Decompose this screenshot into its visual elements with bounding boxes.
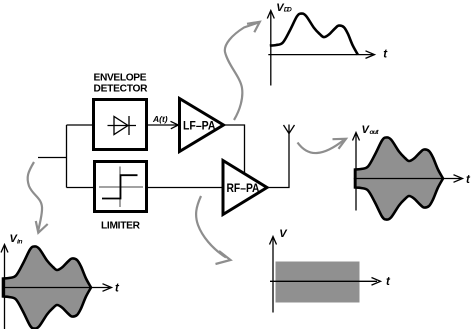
graph Vout axes [353, 133, 463, 211]
svg-text:DD: DD [284, 7, 292, 14]
wire limiter to RF-PA [147, 187, 224, 189]
svg-text:DETECTOR: DETECTOR [94, 84, 149, 95]
limiter symbol [99, 167, 143, 208]
wire A(t) with arrowhead [147, 121, 179, 129]
graph VDD curve [270, 14, 358, 55]
envelope detector box [94, 100, 147, 150]
label ENVELOPE DETECTOR [94, 73, 149, 95]
gray arrow LF-PA to VDD graph [225, 22, 260, 120]
gray arrow antenna to Vout graph [298, 139, 347, 153]
graph Vin axes [1, 245, 112, 329]
wire input stub [38, 157, 67, 159]
op-amp RF-PA [223, 161, 267, 215]
wire to envelope detector [67, 124, 94, 126]
waveform blob Vout [355, 137, 443, 219]
wire to limiter [67, 187, 95, 189]
svg-text:in: in [17, 239, 23, 246]
waveform blob Vin [3, 246, 91, 328]
op-amp LF-PA [180, 99, 224, 152]
graph V axes [270, 237, 277, 313]
gray arrow input to Vin graph [28, 162, 48, 233]
svg-text:LIMITER: LIMITER [101, 221, 141, 232]
wire LF-PA output to RF-PA supply [224, 125, 245, 173]
svg-text:out: out [370, 129, 380, 136]
graph VDD axes [267, 11, 374, 86]
gray arrow RF-PA to V graph [196, 196, 230, 264]
wire splitter vertical [66, 125, 68, 188]
svg-text:LF–PA: LF–PA [183, 119, 216, 133]
svg-text:RF–PA: RF–PA [227, 181, 260, 195]
graph V horizontal axis [270, 278, 381, 286]
svg-text:ENVELOPE: ENVELOPE [94, 73, 147, 84]
gray rect constant envelope [276, 262, 360, 303]
wire RF-PA output to antenna [267, 133, 289, 188]
svg-text:A(t): A(t) [152, 114, 168, 124]
antenna [284, 125, 295, 134]
diode D inside envelope detector [108, 116, 137, 135]
limiter box [95, 162, 147, 212]
